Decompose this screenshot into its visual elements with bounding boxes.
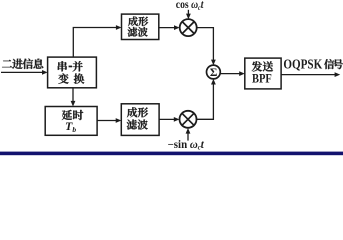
wire: U3 to M2 with arrow	[159, 117, 179, 122]
node label: input 二进信息 (binary information)	[2, 59, 43, 69]
block U4: delay element 延时 Tb	[45, 107, 97, 136]
block U1: serial-to-parallel converter 串-并变换	[48, 57, 97, 88]
wire: U1 top to U2 input with arrow	[73, 25, 121, 57]
wire: −sin carrier into M2 with arrow	[186, 128, 191, 141]
wire: U4 to U3 with arrow	[97, 118, 121, 123]
wire: M2 to summer S1 bottom with arrow	[197, 79, 216, 119]
svg-text:OQPSK: OQPSK	[283, 56, 322, 71]
summer S1: adder Σ	[207, 65, 221, 79]
multiplier M2: lower mixer (Q branch)	[180, 111, 197, 128]
multiplier M1: upper mixer (I branch)	[180, 19, 197, 36]
value label: carrier −sin ωct	[168, 139, 205, 152]
wire: U1 bottom to U4 with arrow	[71, 88, 76, 107]
block U3: lower shaping filter 成形滤波	[121, 104, 159, 136]
wire: U2 output to M1 with arrow	[159, 25, 180, 30]
value label: carrier cos ωct	[176, 0, 204, 12]
wire: U5 to OQPSK output with arrow	[281, 72, 340, 77]
svg-text:Σ: Σ	[210, 67, 218, 79]
block U5: transmit bandpass filter 发送 BPF	[245, 58, 281, 89]
wire: cos carrier into M1 with arrow	[186, 10, 191, 19]
wire: input to U1 with arrow	[1, 70, 48, 75]
svg-text:BPF: BPF	[252, 72, 272, 86]
block U2: upper shaping filter 成形滤波	[122, 14, 159, 39]
wire: M1 to summer S1 top with arrow	[197, 28, 216, 66]
decorative bottom navy bar	[0, 152, 343, 156]
wire: summer S1 to U5 with arrow	[220, 71, 245, 76]
svg-text:cos ωct: cos ωct	[176, 0, 204, 12]
node label: output OQPSK信号	[283, 56, 343, 71]
